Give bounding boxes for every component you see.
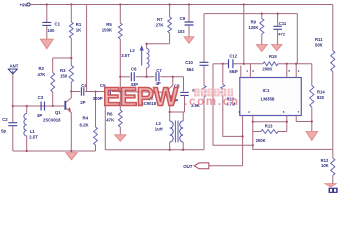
node junction L3 left ground: [169, 149, 171, 151]
svg-text:200K: 200K: [256, 138, 266, 143]
node junction collector Q2: [172, 76, 174, 78]
svg-text:2P: 2P: [80, 100, 85, 105]
wire R1-R2 link: [53, 57, 72, 59]
node junction R10/pin1: [241, 135, 243, 137]
pin stubs top IC1: [240, 66, 242, 78]
capacitor C4: [81, 87, 83, 96]
node junction R5/base wire: [119, 90, 121, 92]
svg-text:R15: R15: [269, 54, 277, 59]
resistor R3: [69, 66, 73, 83]
svg-text:50K: 50K: [315, 42, 323, 47]
resistor R5: [119, 5, 121, 24]
node junction C9 on rail: [188, 3, 190, 5]
wire supply drop x86: [86, 5, 88, 92]
svg-text:6.2K: 6.2K: [80, 123, 90, 128]
capacitor C1: [46, 5, 48, 23]
wire input network: [213, 63, 228, 65]
resistor R6: [118, 110, 122, 127]
node junction IC supply on rail: [243, 3, 245, 5]
capacitor C9: [188, 5, 190, 22]
node junction R5 on rail: [119, 3, 121, 5]
wire pin4 to ground node: [296, 121, 312, 123]
svg-text:L3: L3: [156, 121, 162, 126]
wire R13 top link: [253, 121, 287, 123]
ground under R12: [325, 184, 336, 187]
svg-text:R7: R7: [157, 17, 163, 22]
svg-text:ANT: ANT: [10, 63, 19, 68]
wire L2 to R7: [147, 43, 170, 45]
resistor R10: [222, 64, 224, 85]
ground under C11: [272, 45, 283, 51]
resistor R7: [169, 5, 171, 18]
svg-text:L2: L2: [130, 48, 136, 53]
node junction R1/R3: [70, 57, 72, 59]
resistor R8: [202, 86, 206, 98]
svg-text:LM358: LM358: [261, 97, 275, 102]
capacitor C2: [12, 106, 14, 122]
wire emitter node to C8 bottom: [170, 111, 185, 113]
svg-text:C3: C3: [38, 95, 44, 100]
svg-text:R9: R9: [251, 20, 257, 25]
svg-text:3.5T: 3.5T: [121, 53, 130, 58]
wire supply rail 2: [204, 13, 297, 15]
op-amp IC1 LM358: [240, 78, 301, 116]
node junction R9 rail2: [261, 12, 263, 14]
resistor R4: [95, 92, 97, 128]
node junction C4/C5: [94, 90, 96, 92]
wire supply drop to IC: [243, 5, 245, 64]
svg-text:R1: R1: [76, 22, 82, 27]
inductor L1: [26, 106, 28, 114]
svg-text:564: 564: [187, 67, 195, 72]
node junction pin4 top: [295, 63, 297, 65]
svg-text:R11: R11: [315, 37, 323, 42]
svg-text:200K: 200K: [262, 67, 272, 72]
node junction emitter/L3: [169, 111, 171, 113]
node junction R5/osc wire: [119, 76, 121, 78]
capacitor C8: [180, 92, 188, 95]
svg-text:C12: C12: [229, 53, 237, 58]
capacitor C5: [108, 87, 111, 96]
ground under R14: [306, 132, 318, 141]
node junction pin3 top: [286, 63, 288, 65]
node junction antenna/C2: [12, 105, 14, 107]
svg-text:2SC9018: 2SC9018: [43, 117, 61, 122]
svg-text:150K: 150K: [102, 27, 113, 32]
wire C12 left branch: [213, 64, 253, 146]
wire +9V top rail: [30, 4, 333, 6]
resistor R12: [331, 158, 335, 176]
svg-text:EEPW: EEPW: [103, 82, 178, 112]
svg-text:5p: 5p: [1, 128, 6, 133]
wire oscillator tank: [120, 76, 130, 78]
wire output: [209, 165, 243, 167]
svg-text:R13: R13: [265, 124, 273, 129]
ground under C9: [184, 37, 194, 44]
wire feedback divider: [253, 132, 333, 150]
wire ground rail middle: [105, 149, 204, 151]
wire ground rail left: [13, 150, 96, 152]
svg-text:L1: L1: [30, 129, 36, 134]
node junction R2/base wire: [52, 105, 54, 107]
node junction L1 top: [26, 105, 28, 107]
capacitor C12: [229, 59, 233, 68]
node junction R10 top: [222, 63, 224, 65]
wire C5 node to mid ground: [104, 92, 106, 150]
resistor R15: [263, 62, 278, 66]
wire base line Q1: [13, 105, 65, 107]
resistor R1: [70, 5, 72, 23]
svg-text:150: 150: [60, 74, 68, 79]
svg-text:1uH: 1uH: [155, 127, 163, 132]
node junction link/pin2: [252, 144, 254, 146]
svg-text:47K: 47K: [106, 117, 115, 122]
resistor R13: [252, 122, 254, 132]
svg-text:C11: C11: [279, 21, 287, 26]
svg-text:103: 103: [178, 29, 186, 34]
node junction emitter Q1 ground: [70, 150, 72, 152]
transistor Q1 2SC9018: [64, 101, 66, 110]
svg-text:47K: 47K: [38, 72, 47, 77]
svg-text:R3: R3: [60, 68, 66, 73]
svg-text:1K: 1K: [76, 28, 82, 33]
svg-text:120K: 120K: [248, 25, 258, 30]
inductor L3: [169, 112, 171, 121]
svg-text:C2: C2: [2, 117, 8, 122]
svg-text:C7: C7: [156, 68, 162, 73]
node junction collector Q1: [70, 90, 72, 92]
transistor Q2 2SC9018: [166, 88, 168, 97]
svg-text:+9V: +9V: [20, 2, 28, 7]
inductor L2 variable: [146, 68, 148, 77]
svg-text:820: 820: [317, 95, 325, 100]
svg-text:R2: R2: [39, 66, 45, 71]
node junction C1 on rail: [46, 3, 48, 5]
capacitor C11: [277, 14, 279, 26]
ground under C1: [40, 39, 53, 49]
capacitor C7: [156, 72, 159, 81]
resistor R11: [332, 5, 334, 51]
svg-text:472: 472: [278, 31, 285, 36]
capacitor C3: [41, 102, 44, 111]
resistor R9: [261, 14, 263, 19]
decorative corner logo: [329, 188, 338, 193]
svg-text:300P: 300P: [93, 96, 103, 101]
resistor R14: [311, 64, 313, 86]
ground under R6: [115, 135, 126, 142]
node junction supply/IC input: [243, 63, 245, 65]
svg-text:10K: 10K: [321, 163, 329, 168]
node junction R1 on rail: [70, 3, 72, 5]
capacitor C6: [131, 72, 134, 81]
capacitor C10: [203, 14, 205, 62]
svg-text:R6: R6: [107, 112, 113, 117]
svg-text:C9: C9: [180, 16, 186, 21]
svg-text:C6: C6: [131, 67, 137, 72]
node junction L3 right ground: [182, 149, 184, 151]
wire collector Q1 to base Q2: [71, 91, 80, 93]
wire rail2 corner to IC: [296, 14, 298, 64]
svg-text:C10: C10: [185, 60, 193, 65]
svg-text:2.5T: 2.5T: [29, 134, 38, 139]
resistor R2: [52, 58, 54, 73]
svg-text:OUT: OUT: [183, 164, 193, 169]
svg-text:100: 100: [48, 28, 56, 33]
node junction L1 bottom: [26, 150, 28, 152]
svg-text:C1: C1: [55, 22, 61, 27]
node OUT port: [194, 163, 209, 169]
svg-text:IC1: IC1: [263, 88, 270, 93]
svg-text:3P: 3P: [37, 113, 42, 118]
decorative watermark EEPW (not labelled component): [103, 82, 238, 112]
node junction L2 bottom: [145, 76, 147, 78]
svg-text:R5: R5: [106, 22, 112, 27]
svg-text:R4: R4: [83, 116, 89, 121]
svg-text:Q1: Q1: [55, 110, 61, 115]
node junction R7 on rail: [168, 3, 170, 5]
node junction C11 rail2: [276, 12, 278, 14]
pin stubs bottom IC1: [242, 116, 244, 166]
ground left rail: [66, 153, 78, 160]
svg-text:27K: 27K: [156, 22, 165, 27]
ground under R9: [256, 45, 267, 52]
